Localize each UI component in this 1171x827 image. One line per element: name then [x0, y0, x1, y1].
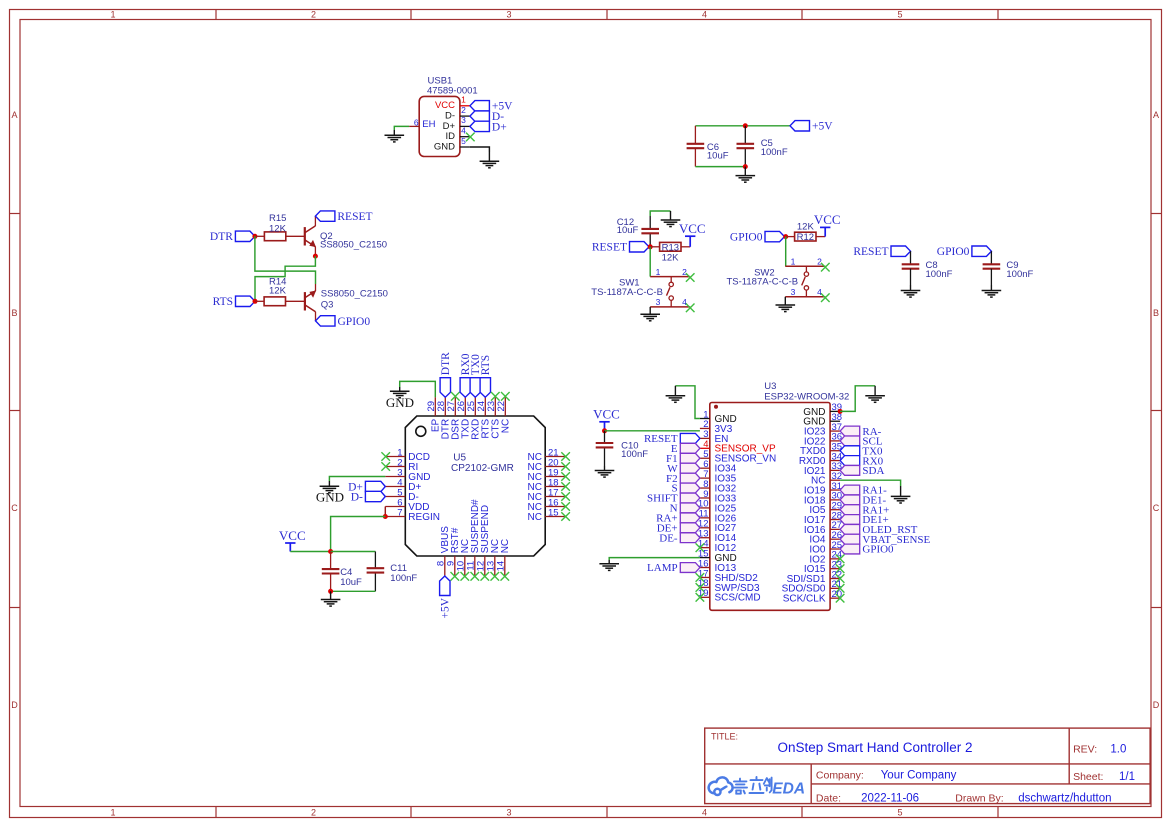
svg-text:SDA: SDA — [862, 465, 884, 477]
svg-text:DTR: DTR — [210, 231, 233, 243]
wire C4 to C11 bottom — [331, 590, 376, 592]
net flag GPIO0 at Q3 — [316, 316, 336, 326]
svg-text:B: B — [11, 308, 17, 318]
U5 pin 12 (SUSPEND) bottom — [484, 556, 486, 576]
resistor R12 leads — [786, 236, 795, 238]
resistor R15 leads — [255, 235, 265, 237]
no-connect X on SW2 pin 2 — [821, 263, 830, 272]
junction at U5 REGIN — [383, 514, 388, 519]
svg-text:5: 5 — [461, 136, 466, 146]
wire VCC to C4 node — [290, 551, 330, 553]
net flag +5V — [790, 121, 810, 131]
U5 pin 21 (NC) right — [545, 456, 565, 458]
wire VCC node to U3 pin2 — [605, 430, 700, 432]
U3 pin 4 (SENSOR_VP) — [700, 447, 710, 449]
U5 pin 7 (REGIN) — [385, 516, 405, 518]
U3 pin 26 (IO4) — [830, 538, 840, 540]
U3 pin 35 (TXD0) — [830, 450, 840, 452]
svg-text:47589-0001: 47589-0001 — [427, 86, 478, 97]
net label OLED_RST at U3 pin 27 — [840, 524, 860, 534]
U3 pin 29 (IO5) — [830, 509, 840, 511]
svg-text:3: 3 — [656, 297, 661, 307]
U5 pin 26 (TXD) top — [464, 397, 466, 416]
wire U3 pin39 GND to ground — [840, 386, 875, 412]
svg-text:1: 1 — [461, 95, 466, 105]
svg-text:GPIO0: GPIO0 — [730, 232, 763, 244]
capacitor C12 — [641, 228, 659, 230]
svg-text:22: 22 — [496, 401, 507, 412]
U3 pin 10 (IO25) — [700, 507, 710, 509]
U5 pin 19 (NC) right — [545, 476, 565, 478]
ground at U5 pin3 — [328, 481, 330, 486]
U5 pin 23 (CTS) top — [494, 397, 496, 416]
svg-text:3: 3 — [791, 287, 796, 297]
junction at C4 bottom — [328, 589, 333, 594]
svg-text:12K: 12K — [662, 252, 680, 263]
junction at C5 bottom — [743, 164, 748, 169]
net label RA1+ at U3 pin 29 — [840, 505, 860, 515]
svg-text:Your Company: Your Company — [881, 770, 957, 782]
svg-text:GPIO0: GPIO0 — [862, 544, 894, 556]
junction at SW2 GPIO0 node — [783, 234, 788, 239]
svg-text:GND: GND — [316, 490, 344, 505]
net label W at U3 pin 6 — [680, 463, 700, 473]
resistor R15 — [264, 232, 285, 241]
svg-text:100nF: 100nF — [621, 449, 648, 460]
wire USB1 pin6 to ground — [394, 126, 409, 130]
wire U5 EP pin29 to ground — [400, 381, 436, 397]
ground below C4 — [330, 591, 332, 599]
U3 pin 9 (IO33) — [700, 497, 710, 499]
net flag RTS — [236, 296, 256, 306]
net flag D- at USB1 pin2 — [470, 111, 490, 121]
net flag D- at U5 pin5 — [365, 491, 385, 501]
U3 pin 1 (GND) — [700, 418, 710, 420]
svg-text:U5: U5 — [453, 453, 466, 464]
svg-text:3: 3 — [506, 10, 511, 20]
svg-text:1/1: 1/1 — [1119, 771, 1135, 783]
ground at USB1 pin6 — [393, 130, 395, 135]
svg-text:CP2102-GMR: CP2102-GMR — [451, 463, 514, 474]
ground at U5 EP — [399, 387, 401, 391]
net flag D+ at USB1 pin3 — [470, 121, 490, 131]
U3 pin 25 (IO0) — [830, 548, 840, 550]
svg-text:LAMP: LAMP — [647, 562, 678, 574]
net flag DTR — [235, 231, 255, 241]
svg-text:EDA: EDA — [772, 781, 805, 798]
U3 pin 32 (NC) — [830, 479, 840, 481]
svg-text:NC: NC — [500, 539, 511, 553]
capacitor C5 — [737, 143, 755, 145]
net flag GPIO0 at SW2 — [765, 231, 785, 241]
svg-text:NC: NC — [528, 512, 542, 523]
wire U3 pin1 GND to ground — [675, 386, 700, 419]
U3 pin 13 (IO14) — [700, 537, 710, 539]
connector USB1 body — [419, 96, 460, 156]
svg-text:RTS: RTS — [480, 355, 492, 375]
U5 pin 1 (DCD) — [385, 456, 405, 458]
U3 pin 33 (IO21) — [830, 469, 840, 471]
svg-text:+5V: +5V — [440, 597, 452, 618]
svg-text:NC: NC — [501, 419, 512, 433]
VCC symbol at R13 — [689, 236, 691, 247]
capacitor C10 — [596, 442, 614, 444]
svg-text:B: B — [1153, 308, 1159, 318]
ground below C8 — [910, 285, 912, 291]
svg-text:R12: R12 — [797, 232, 814, 243]
U3 pin 3 (EN) — [700, 437, 710, 439]
svg-text:4: 4 — [682, 297, 687, 307]
U3 pin 39 (GND) — [830, 410, 840, 412]
U3 pin 12 (IO27) — [700, 527, 710, 529]
svg-text:VCC: VCC — [814, 212, 841, 227]
svg-text:VCC: VCC — [679, 221, 706, 236]
resistor R12 — [795, 232, 816, 241]
svg-text:3: 3 — [461, 115, 466, 125]
wire Q2 emitter down — [314, 247, 316, 256]
U3 pin 17 (SHD/SD2) — [700, 576, 710, 578]
U5 pin 4 (D+) — [385, 486, 405, 488]
svg-text:+5V: +5V — [812, 121, 833, 133]
wire SW2 GPIO0 node to pin1 — [785, 237, 787, 267]
ground right of C12 — [670, 211, 672, 220]
svg-text:D+: D+ — [492, 121, 507, 133]
net flag D+ at U5 pin4 — [365, 481, 385, 491]
svg-text:GND: GND — [434, 141, 455, 152]
svg-text:10uF: 10uF — [707, 151, 729, 162]
svg-text:Date:: Date: — [816, 793, 841, 805]
U3 pin 18 (SWP/SD3) — [700, 586, 710, 588]
svg-text:7: 7 — [397, 508, 402, 519]
svg-text:1: 1 — [656, 267, 661, 277]
U5 pin 20 (NC) right — [545, 466, 565, 468]
wire +5V rail top — [695, 125, 790, 127]
svg-text:DE-: DE- — [659, 532, 678, 544]
U5 pin 14 (NC) bottom — [504, 556, 506, 576]
U5 pin 8 (VBUS) bottom — [444, 556, 446, 576]
resistor R13 — [660, 242, 681, 251]
svg-text:Company:: Company: — [816, 770, 864, 782]
junction at RTS — [253, 299, 258, 304]
net flag TX0 at U3 pin35 — [840, 446, 860, 456]
U3 pin 34 (RXD0) — [830, 460, 840, 462]
wire DTR node to Q3 collector — [255, 236, 316, 284]
no-connect X on SW1 pin 4 — [686, 304, 695, 313]
no-connect X on U5 pin22 — [501, 392, 510, 401]
net flag RX0 at U3 pin34 — [840, 456, 860, 466]
U5 pin 2 (RI) — [385, 466, 405, 468]
net flag +5V at USB1 pin1 — [470, 101, 490, 111]
U5 pin 18 (NC) right — [545, 486, 565, 488]
svg-text:5: 5 — [897, 808, 902, 818]
svg-text:2: 2 — [817, 257, 822, 267]
svg-text:TITLE:: TITLE: — [711, 732, 738, 742]
wire C9 to ground — [990, 269, 992, 285]
svg-text:12K: 12K — [269, 285, 287, 296]
net flag RESET at U3 pin3 — [680, 433, 700, 443]
svg-text:A: A — [11, 110, 17, 120]
svg-text:D: D — [1153, 700, 1160, 710]
svg-text:GPIO0: GPIO0 — [338, 316, 371, 328]
svg-text:100nF: 100nF — [390, 573, 417, 584]
resistor R14 — [264, 297, 285, 306]
ground at SW2 pin 3 — [784, 297, 786, 305]
wire Q2 emitter to RTS node — [255, 256, 315, 301]
junction at C4 top — [328, 549, 333, 554]
svg-text:SCS/CMD: SCS/CMD — [715, 593, 761, 604]
wire Q3 emitter to GPIO0 flag — [315, 312, 317, 321]
switch SW1 — [650, 276, 690, 278]
svg-text:D-: D- — [351, 491, 363, 503]
net label SHIFT at U3 pin 9 — [680, 493, 700, 503]
U5 pin 25 (RXD) top — [474, 397, 476, 416]
svg-text:A: A — [1153, 110, 1159, 120]
U3 pin 15 (GND) — [700, 557, 710, 559]
svg-text:100nF: 100nF — [926, 269, 953, 280]
svg-text:SS8050_C2150: SS8050_C2150 — [320, 239, 387, 250]
U3 pin 30 (IO18) — [830, 499, 840, 501]
wire U5 pin6 VDD down to REGIN net — [384, 507, 386, 517]
U3 pin 8 (IO32) — [700, 487, 710, 489]
net label DE1- at U3 pin 30 — [840, 495, 860, 505]
U5 pin 15 (NC) right — [545, 516, 565, 518]
junction at Q2 emitter — [313, 254, 318, 259]
junction at SW1 RESET node — [648, 244, 653, 249]
capacitor C5 leads — [744, 126, 746, 144]
net label VBAT_SENSE at U3 pin 26 — [840, 534, 860, 544]
ground at U3 pin39 — [874, 386, 876, 396]
VCC symbol at C10 — [599, 421, 609, 423]
capacitor C11 — [367, 567, 385, 569]
no-connect X on U5 pin27 — [451, 392, 460, 401]
op-amp U5 body (CP2102-GMR) — [405, 416, 545, 556]
capacitor C11 leads — [374, 552, 376, 569]
wire USB1 pin5 to ground — [470, 147, 490, 152]
net flag RESET at SW1 — [630, 242, 650, 252]
no-connect X on USB1 pin 4 — [466, 133, 475, 142]
U5 pin 17 (NC) right — [545, 496, 565, 498]
capacitor C12 leads — [649, 216, 651, 229]
svg-text:C: C — [11, 503, 18, 513]
title block frame — [705, 728, 1150, 804]
net label F2 at U3 pin 7 — [680, 473, 700, 483]
U3 pin 21 (SDO/SD0) — [830, 587, 840, 589]
junction at DTR — [252, 234, 257, 239]
svg-text:2: 2 — [682, 267, 687, 277]
svg-text:U3: U3 — [764, 381, 776, 392]
net label SCL at U3 pin 36 — [840, 436, 860, 446]
net label SDA at U3 pin 33 — [840, 465, 860, 475]
wire C12 top to ground — [650, 211, 670, 216]
net label DE1+ at U3 pin 28 — [840, 515, 860, 525]
net label DE+ at U3 pin 12 — [680, 523, 700, 533]
svg-text:Sheet:: Sheet: — [1073, 771, 1103, 783]
ground at USB1 pin5 — [488, 152, 490, 161]
svg-text:TS-1187A-C-C-B: TS-1187A-C-C-B — [591, 287, 663, 298]
svg-text:D: D — [11, 700, 18, 710]
U5 pin 22 (NC) top — [504, 397, 506, 416]
capacitor C4 leads — [330, 552, 332, 570]
wire U3 pin32 NC to ground — [840, 480, 901, 486]
U3 pin 6 (IO34) — [700, 467, 710, 469]
net flag RESET at Q2 — [315, 211, 335, 221]
net label RA1- at U3 pin 31 — [840, 485, 860, 495]
net label LAMP at U3 pin 16 — [680, 563, 700, 573]
svg-text:SS8050_C2150: SS8050_C2150 — [321, 288, 388, 299]
U5 pin 5 (D-) — [385, 496, 405, 498]
svg-text:4: 4 — [702, 808, 707, 818]
svg-text:1: 1 — [791, 257, 796, 267]
svg-text:2: 2 — [311, 808, 316, 818]
net label S at U3 pin 8 — [680, 483, 700, 493]
EasyEDA logo cloud — [709, 777, 733, 795]
svg-text:RESET: RESET — [592, 242, 627, 254]
net label RA- at U3 pin 37 — [840, 426, 860, 436]
U3 pin 28 (IO17) — [830, 519, 840, 521]
svg-text:Drawn By:: Drawn By: — [955, 793, 1003, 805]
svg-text:15: 15 — [548, 508, 559, 519]
U3 pin 7 (IO35) — [700, 477, 710, 479]
svg-text:10uF: 10uF — [617, 225, 639, 236]
svg-text:dschwartz/hdutton: dschwartz/hdutton — [1018, 793, 1111, 805]
U5 pin 13 (NC) bottom — [494, 556, 496, 576]
svg-text:REGIN: REGIN — [408, 512, 440, 523]
U5 pin 16 (NC) right — [545, 506, 565, 508]
U3 pin 36 (IO22) — [830, 440, 840, 442]
svg-text:2: 2 — [311, 10, 316, 20]
wire Q2 collector to RESET flag — [314, 216, 316, 226]
U5 pin 6 (VDD) — [385, 506, 405, 508]
wire Q3 collector — [315, 284, 317, 291]
ground at U3 pin1 — [674, 386, 676, 396]
svg-text:RESET: RESET — [853, 246, 888, 258]
junction at C10 top — [602, 428, 607, 433]
switch SW2 — [785, 265, 825, 267]
svg-text:C: C — [1153, 503, 1160, 513]
svg-text:VCC: VCC — [279, 528, 306, 543]
U3 pin 38 (GND) — [830, 420, 840, 422]
U5 pin 9 (RST#) bottom — [454, 556, 456, 576]
svg-text:12K: 12K — [269, 223, 287, 234]
wire SW1 RESET node to pin1 — [649, 247, 651, 277]
U5 pin 28 (DTR) top — [444, 397, 446, 416]
capacitor C6 leads — [694, 126, 696, 144]
svg-text:REV:: REV: — [1073, 743, 1097, 755]
ground below C9 — [990, 285, 992, 291]
resistor R13 leads — [650, 246, 660, 248]
no-connect X on U5 pin23 — [491, 392, 500, 401]
ground below C5 — [744, 167, 746, 176]
capacitor C8 — [902, 263, 920, 265]
wire RESET flag to C8 — [910, 251, 912, 264]
capacitor C6 — [687, 143, 705, 145]
capacitor C10 leads — [604, 431, 606, 443]
svg-text:VCC: VCC — [593, 407, 620, 422]
svg-text:EH: EH — [422, 119, 435, 130]
svg-text:1: 1 — [110, 808, 115, 818]
U3 pin 5 (SENSOR_VN) — [700, 457, 710, 459]
svg-text:2: 2 — [461, 105, 466, 115]
VCC symbol at R12 — [824, 227, 826, 236]
svg-text:5: 5 — [897, 10, 902, 20]
svg-text:TS-1187A-C-C-B: TS-1187A-C-C-B — [727, 277, 799, 288]
svg-text:ESP32-WROOM-32: ESP32-WROOM-32 — [764, 392, 849, 403]
wire U3 pin15 GND to ground — [609, 558, 700, 560]
U3 pin 11 (IO26) — [700, 517, 710, 519]
no-connect X on SW1 pin 2 — [686, 273, 695, 282]
transistor Q3 — [304, 292, 306, 310]
svg-text:3: 3 — [506, 808, 511, 818]
wire U5 REGIN to VCC node — [331, 517, 386, 552]
U3 pin 2 (3V3) — [700, 427, 710, 429]
wire GPIO0 flag to C9 — [990, 251, 992, 264]
ground at U3 pin15 — [608, 560, 610, 564]
junction at C5 top — [743, 123, 748, 128]
svg-text:OnStep Smart Hand Controller 2: OnStep Smart Hand Controller 2 — [777, 740, 972, 755]
ground at U3 pin32 — [900, 486, 902, 496]
net label N at U3 pin 10 — [680, 503, 700, 513]
U3 pin 14 (IO12) — [700, 547, 710, 549]
U5 pin 11 (SUSPEND#) bottom — [474, 556, 476, 576]
svg-text:12K: 12K — [797, 222, 815, 233]
svg-text:4: 4 — [817, 287, 822, 297]
ground below C10 — [604, 466, 606, 471]
net flag GPIO0 at C9 — [972, 246, 992, 256]
svg-text:14: 14 — [496, 561, 507, 572]
svg-text:DTR: DTR — [440, 352, 452, 375]
U3 pin 20 (SCK/CLK) — [830, 597, 840, 599]
U5 pin 27 (DSR) top — [454, 397, 456, 416]
U5 pin 3 (GND) — [385, 476, 405, 478]
EasyEDA logo text jia-li-chuang — [732, 777, 773, 794]
resistor R14 leads — [255, 300, 264, 302]
net label DE- at U3 pin 13 — [680, 533, 700, 543]
U5 pin 29 (EP) top — [434, 397, 436, 416]
svg-text:10uF: 10uF — [340, 577, 362, 588]
capacitor C4 — [322, 568, 340, 570]
svg-text:RTS: RTS — [213, 296, 233, 308]
wire C8 to ground — [910, 269, 912, 285]
net flag RESET at C8 — [891, 246, 911, 256]
U3 pin 16 (IO13) — [700, 567, 710, 569]
wire U5 pin3 GND to ground — [329, 477, 385, 482]
svg-text:4: 4 — [461, 126, 466, 136]
svg-text:1: 1 — [110, 10, 115, 20]
svg-text:Q3: Q3 — [321, 300, 334, 311]
no-connect X on SW2 pin 4 — [821, 293, 830, 302]
U3 pin 37 (IO23) — [830, 430, 840, 432]
wire C6 to C5 bottom — [695, 166, 745, 168]
capacitor C9 — [983, 263, 1001, 265]
svg-text:GND: GND — [386, 395, 414, 410]
net label F1 at U3 pin 5 — [680, 453, 700, 463]
svg-text:GPIO0: GPIO0 — [937, 246, 970, 258]
microcontroller U3 (ESP32-WROOM-32) body — [710, 403, 830, 611]
U3 pin 23 (IO15) — [830, 568, 840, 570]
svg-text:2022-11-06: 2022-11-06 — [861, 793, 919, 805]
U3 pin 31 (IO19) — [830, 489, 840, 491]
svg-text:100nF: 100nF — [761, 147, 788, 158]
net label GPIO0 at U3 pin 25 — [840, 544, 860, 554]
U3 pin 24 (IO2) — [830, 558, 840, 560]
svg-text:SCK/CLK: SCK/CLK — [783, 594, 826, 605]
svg-text:100nF: 100nF — [1006, 269, 1033, 280]
U3 pin 22 (SDI/SD1) — [830, 578, 840, 580]
ground at SW1 pin 3 — [649, 307, 651, 314]
net label RA+ at U3 pin 11 — [680, 513, 700, 523]
net label E at U3 pin 4 — [680, 443, 700, 453]
svg-text:4: 4 — [702, 10, 707, 20]
